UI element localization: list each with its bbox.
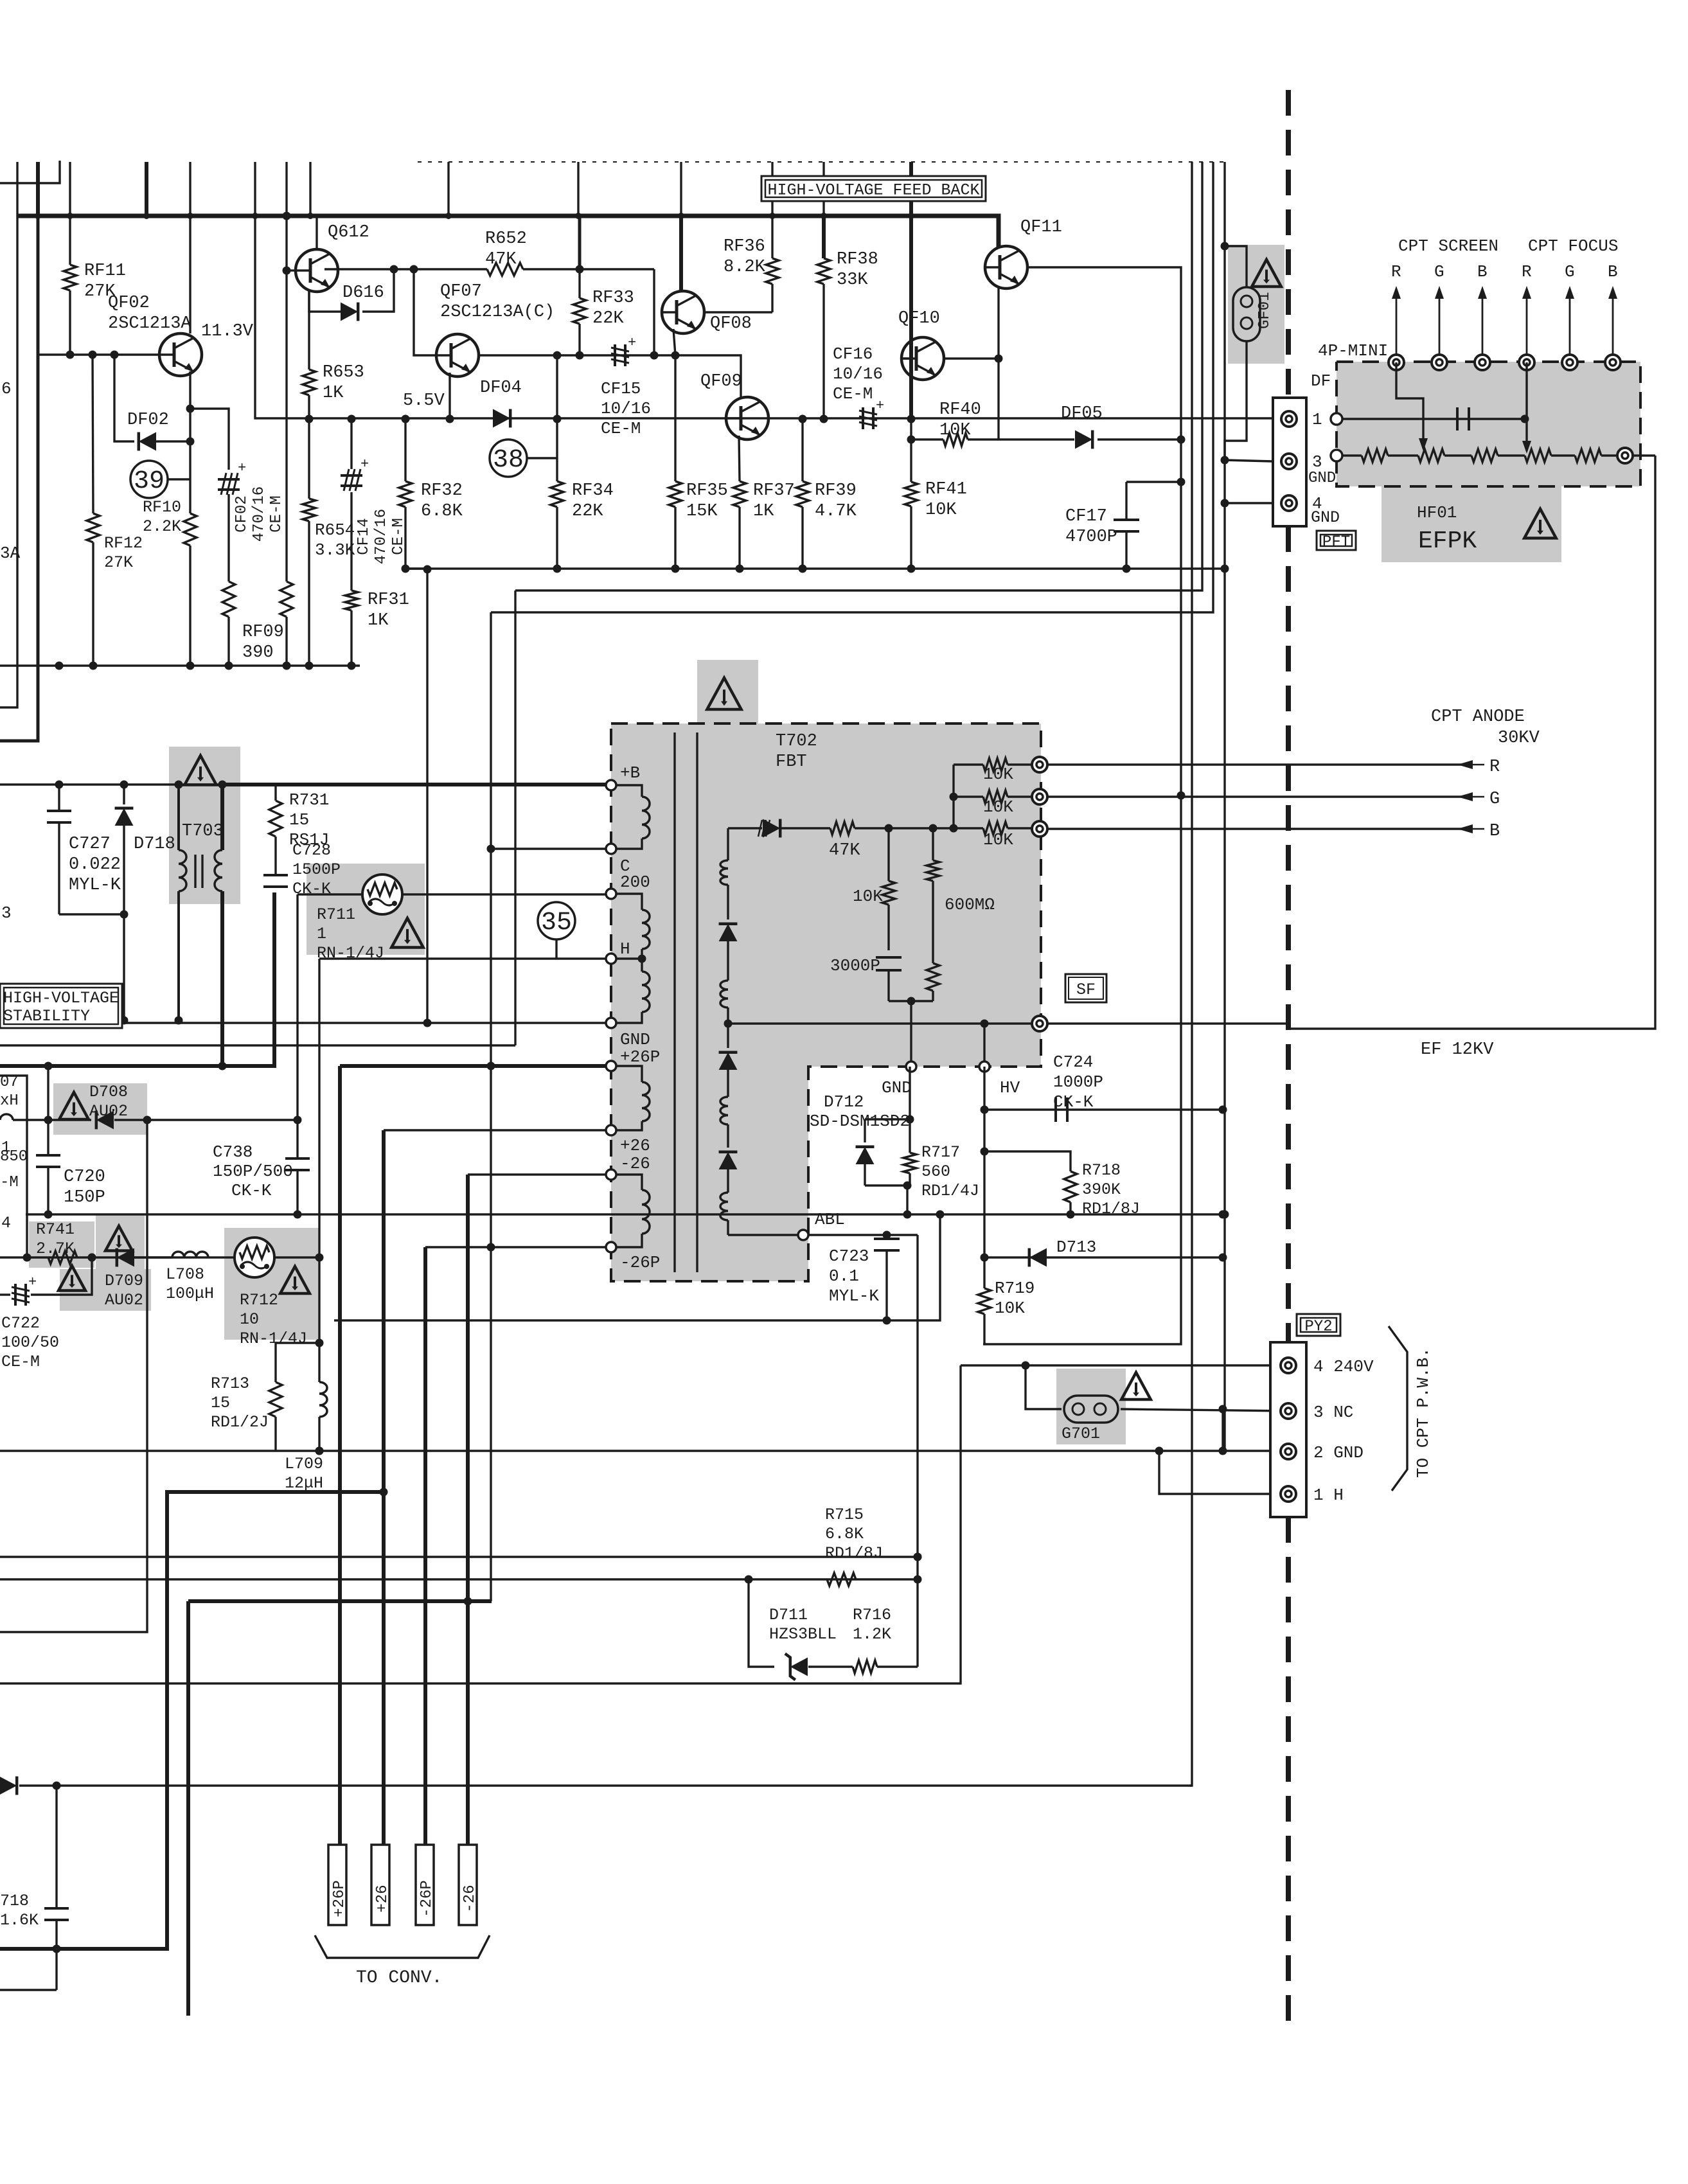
label DF02 [127, 411, 169, 430]
connector bar -26 [459, 1845, 479, 1925]
svg-text:CE-M: CE-M [601, 419, 641, 438]
warning triangle D708 [59, 1092, 89, 1119]
shaded region T702 flyback main block [611, 724, 1041, 1067]
wire R718 branch [984, 1151, 1071, 1171]
junction dots QF02 base line [66, 351, 119, 359]
pin +26 of T702 [606, 1125, 616, 1135]
junction dots y2258 [315, 1447, 1227, 1455]
svg-text:B: B [1489, 822, 1500, 841]
label pin 1 [1312, 410, 1322, 429]
label D713 [1056, 1238, 1096, 1257]
wire +26P line [340, 1064, 611, 1068]
wire GND line [124, 1022, 611, 1024]
wire left exit upper [0, 216, 17, 707]
label fragment 6 [1, 379, 12, 398]
label DF [1311, 371, 1331, 391]
wire 200 column [296, 894, 298, 1120]
capacitor C728 [263, 869, 288, 887]
label DF04 [480, 378, 522, 398]
wire R716 up [916, 1579, 918, 1667]
svg-text:C738: C738 [213, 1142, 253, 1162]
wire R line [1047, 763, 1466, 765]
label 30KV [1498, 729, 1540, 748]
wire B line [1047, 828, 1466, 830]
terminal PY2-1 [1281, 1486, 1296, 1502]
svg-text:ABL: ABL [815, 1210, 845, 1229]
warning triangle G701 [1121, 1372, 1151, 1399]
shaded region R711 [307, 864, 425, 955]
label PY2 pin3 [1313, 1403, 1353, 1422]
junction dot 1412 [903, 1182, 912, 1190]
wire H drive drop [318, 959, 320, 1257]
resistor R731 [269, 785, 282, 869]
wire top-left entry [0, 161, 60, 183]
wire QF08 collector [679, 216, 683, 291]
svg-text:718: 718 [0, 1892, 29, 1910]
svg-text:4P-MINI: 4P-MINI [1318, 341, 1388, 360]
svg-text:470/16: 470/16 [373, 509, 390, 564]
svg-text:G701: G701 [1062, 1425, 1100, 1443]
warning triangle R711 [391, 918, 423, 948]
junction dot G701 branch [1022, 1362, 1030, 1370]
warning triangle R741a [105, 1226, 132, 1251]
shaded region R741 [29, 1221, 94, 1268]
focus pack border [1337, 362, 1640, 486]
junction dots D708 line [44, 1116, 302, 1124]
wire HV-C724 line [983, 1067, 985, 1110]
wire QF02 emitter [189, 371, 191, 441]
wire R652 corner down [653, 269, 655, 355]
label C728 [292, 841, 341, 898]
label 11.3V [201, 322, 254, 341]
label R715 [825, 1505, 883, 1563]
svg-text:R719: R719 [995, 1279, 1035, 1298]
capacitor C718 fragment [44, 1786, 69, 1990]
wire 5.5V line [255, 216, 1289, 418]
terminal CPT 4 [1519, 355, 1534, 370]
svg-text:CE-M: CE-M [268, 495, 285, 533]
fusible resistor R711 [362, 874, 402, 914]
resistor 47K [781, 822, 954, 835]
svg-text:560: 560 [921, 1162, 950, 1181]
svg-text:2SC1213A(C): 2SC1213A(C) [440, 303, 555, 322]
wire pin +B to winding [616, 785, 642, 797]
transistor QF09 [726, 397, 768, 439]
resistor 10K y1240 [954, 790, 1032, 803]
label RF37 [753, 481, 795, 521]
svg-text:GND: GND [1311, 508, 1340, 527]
svg-text:+: + [360, 456, 369, 472]
svg-text:C723: C723 [829, 1247, 869, 1266]
wire winding to pin H [616, 949, 642, 959]
svg-text:4700P: 4700P [1065, 528, 1117, 547]
wire line y2458 [0, 1578, 918, 1580]
svg-text:RF11: RF11 [84, 262, 126, 281]
svg-text:1.6K: 1.6K [0, 1911, 39, 1930]
shaded region T702 top strip [697, 660, 758, 724]
svg-text:D718: D718 [134, 835, 175, 854]
svg-text:27K: 27K [104, 553, 133, 572]
label R652 [485, 229, 527, 269]
terminal CPT 6 [1605, 355, 1621, 370]
zener diode D711 [785, 1654, 808, 1680]
svg-text:MYL-K: MYL-K [69, 876, 121, 895]
pin GND of T702 [606, 1018, 616, 1028]
svg-text:4: 4 [1, 1214, 11, 1232]
label 5.5V [403, 391, 445, 411]
svg-text:3 NC: 3 NC [1313, 1403, 1353, 1422]
inductor L708 [134, 1252, 208, 1257]
svg-text:6.8K: 6.8K [421, 502, 463, 521]
junction dots GND line [120, 1017, 432, 1027]
wire feed stub x698 [447, 162, 449, 216]
svg-text:C720: C720 [64, 1167, 105, 1187]
wire feedback drop x764 [490, 612, 492, 1601]
wire feed stub x1282 [822, 162, 824, 216]
label C738 [213, 1142, 253, 1162]
wire -26 line [468, 1173, 611, 1175]
wire thick C728 return [0, 892, 274, 1066]
label CF17 [1065, 507, 1117, 547]
svg-text:R: R [1489, 758, 1500, 777]
wire focus R drop [1525, 362, 1527, 451]
warning triangle T703 [184, 756, 216, 785]
svg-text:CK-K: CK-K [1053, 1092, 1094, 1112]
wire left section bottom bus [0, 664, 360, 666]
resistor RF33 [573, 216, 586, 355]
arrow CPT B 2307 [1478, 286, 1487, 355]
wire to GND circle [910, 1001, 912, 1067]
junction dot C727/D718 [120, 910, 129, 919]
wire heavy dashed vertical lower [1286, 1517, 1291, 2024]
terminal CPT 5 [1562, 355, 1577, 370]
capacitor CF14 [341, 419, 369, 590]
svg-text:Q612: Q612 [328, 223, 369, 242]
pin HV of T702 [979, 1061, 990, 1072]
capacitor focus cap [1457, 407, 1469, 431]
label R anode [1489, 758, 1500, 777]
wire 10K bus [952, 765, 954, 828]
svg-text:11.3V: 11.3V [201, 322, 254, 341]
svg-text:+B: +B [620, 763, 640, 783]
label HIGH-VOLTAGE STABILITY box [0, 984, 122, 1028]
wire +B line [0, 783, 222, 785]
junction dots C724 line [981, 1106, 1227, 1114]
capacitor C720 [36, 1066, 60, 1214]
label fragment 4 [1, 1214, 11, 1232]
svg-text:R717: R717 [921, 1143, 960, 1162]
svg-text:RD1/8J: RD1/8J [1082, 1200, 1140, 1218]
diode D712 [856, 1119, 875, 1185]
label PFT box [1317, 531, 1356, 551]
svg-text:33K: 33K [837, 271, 868, 290]
label CF02 [233, 486, 285, 542]
resistor R741 [48, 1251, 77, 1264]
svg-text:CF17: CF17 [1065, 507, 1107, 526]
node 39 [130, 461, 190, 498]
label R653 [323, 363, 364, 403]
svg-text:47K: 47K [485, 250, 517, 269]
label pin 200 [620, 873, 650, 892]
svg-text:D709: D709 [105, 1272, 143, 1290]
label C722 [1, 1314, 59, 1371]
wire D713 line [983, 1110, 985, 1257]
wire feed stub x59 [36, 162, 40, 216]
junction dots R715 [745, 1553, 922, 1584]
shaded region D709 [60, 1269, 151, 1311]
label R654 [315, 520, 355, 560]
svg-text:PY2: PY2 [1304, 1318, 1332, 1336]
svg-text:200: 200 [620, 873, 650, 892]
junction dots column 446 [283, 212, 291, 275]
label 10K y1190 [983, 765, 1013, 784]
wire feedback drop x802 [514, 590, 516, 1045]
capacitor CF17 [1114, 482, 1139, 569]
diode D718 [115, 785, 134, 1020]
svg-text:CPT ANODE: CPT ANODE [1431, 707, 1525, 727]
label CPT B 2307 [1477, 262, 1488, 281]
wire line y2055 [334, 1214, 940, 1320]
resistor RF31 [345, 590, 358, 666]
transformer T702 winding -26--26P [642, 1190, 650, 1234]
wire Q612 base stub [287, 269, 296, 271]
wire Q612 base line [324, 268, 394, 270]
label RF10 [143, 498, 181, 536]
wire line y919 [515, 162, 1202, 590]
label ABL [815, 1210, 845, 1229]
resistor RF39 [796, 418, 809, 569]
junction dot QF10 coll [995, 355, 1003, 363]
svg-text:100/50: 100/50 [1, 1333, 59, 1352]
svg-text:2.2K: 2.2K [143, 517, 181, 536]
terminal CPT 2 [1432, 355, 1447, 370]
svg-text:3: 3 [1312, 452, 1322, 472]
label pin H [620, 939, 630, 959]
arrowhead focus R [1522, 441, 1531, 454]
svg-text:R652: R652 [485, 229, 527, 249]
label HV stability text [3, 989, 119, 1025]
svg-text:-M: -M [0, 1174, 19, 1191]
wire EF line [1047, 456, 1655, 1029]
svg-text:B: B [1608, 262, 1618, 281]
wire H line [319, 957, 611, 959]
svg-text:CK-K: CK-K [231, 1181, 272, 1200]
wire +B thick line [222, 783, 611, 786]
junction dot H winding [638, 955, 646, 963]
svg-text:1000P: 1000P [1053, 1072, 1103, 1092]
pin +B of T702 [606, 780, 616, 790]
terminal B [1032, 821, 1047, 837]
resistor RF11 [64, 216, 76, 355]
label T703 [182, 822, 224, 841]
wire top-section ground bus [405, 567, 1225, 569]
resistor R653 [303, 369, 315, 419]
wire pin H to winding2 [641, 959, 643, 972]
label CPT FOCUS [1528, 236, 1618, 256]
arrow CPT G 2240 [1435, 286, 1444, 355]
label pin C [620, 857, 630, 876]
transformer T702 border [611, 724, 1041, 1281]
capacitor C727 [47, 785, 71, 914]
svg-text:3.3K: 3.3K [315, 540, 355, 560]
svg-text:150P/500: 150P/500 [213, 1162, 293, 1181]
svg-text:EFPK: EFPK [1418, 528, 1477, 555]
svg-text:2SC1213A: 2SC1213A [108, 314, 191, 333]
diode D709 [117, 1248, 134, 1267]
label Q612 [328, 223, 369, 242]
label CPT SCREEN [1398, 236, 1498, 256]
arrow CPT R 2173 [1392, 286, 1401, 355]
junction dot 10K mid [950, 793, 958, 801]
label EF 12KV [1421, 1040, 1494, 1060]
wire winding to pin -26P [616, 1234, 642, 1247]
fusible resistor R712 [235, 1238, 274, 1277]
resistor RF32 [399, 418, 412, 569]
svg-text:D713: D713 [1056, 1238, 1096, 1257]
wire C727 bottom [59, 913, 124, 915]
wire chain to EF [1633, 454, 1655, 456]
transformer T702 secondary chain [719, 828, 738, 1235]
wire x227 drop [0, 1120, 147, 1632]
svg-text:850: 850 [0, 1148, 28, 1166]
inductor L707 [0, 1114, 13, 1120]
svg-text:T703: T703 [182, 822, 224, 841]
svg-text:RF32: RF32 [421, 481, 463, 501]
svg-text:CPT SCREEN: CPT SCREEN [1398, 236, 1498, 256]
label HV pin [1000, 1078, 1020, 1097]
svg-text:CF14: CF14 [355, 518, 373, 555]
label D711 [769, 1606, 837, 1644]
svg-text:T702: T702 [776, 732, 817, 751]
resistor R717 [903, 1153, 916, 1185]
wire CF17 top [1126, 481, 1181, 483]
resistor 10K inner [882, 828, 895, 950]
junction dots on 651 line [305, 415, 916, 423]
warning triangle R712 [280, 1266, 310, 1293]
diode D717 fragment [0, 1777, 17, 1795]
label 600M [945, 895, 995, 914]
label CPT B 2510 [1608, 262, 1618, 281]
svg-text:RF35: RF35 [686, 481, 728, 501]
wire -26P line [425, 1246, 611, 1248]
terminal chain right [1617, 448, 1633, 463]
label TO CPT PWB [1414, 1347, 1433, 1478]
svg-text:QF02: QF02 [108, 294, 150, 313]
resistor R713 [269, 1343, 282, 1451]
svg-text:+26: +26 [620, 1136, 650, 1155]
svg-text:AU02: AU02 [105, 1291, 143, 1310]
junction dots on 1838 column [1177, 436, 1186, 800]
capacitor CF02 [218, 460, 246, 582]
resistor RF38 [817, 216, 830, 418]
svg-text:HIGH-VOLTAGE: HIGH-VOLTAGE [3, 989, 119, 1008]
svg-text:4 240V: 4 240V [1313, 1357, 1374, 1376]
svg-text:-26: -26 [461, 1885, 479, 1912]
wire main top bus [17, 216, 999, 246]
label RF36 [724, 237, 766, 277]
label fragment -M [0, 1174, 19, 1191]
wire QF11 emitter [997, 286, 999, 439]
capacitor C723 [874, 1235, 900, 1320]
wire R717 top [909, 1067, 911, 1153]
wire Q612 emitter drop [308, 290, 310, 369]
label D712 [824, 1092, 864, 1112]
svg-text:C728: C728 [292, 841, 331, 860]
label fragment 1 [1, 1139, 10, 1157]
diode D708 [13, 1111, 298, 1130]
wire Q612 collector [315, 216, 317, 251]
svg-text:47K: 47K [829, 841, 860, 860]
junction dot base-R652 [390, 265, 398, 274]
wire 3000P/600M join [889, 1000, 933, 1002]
resistor R719 [978, 1257, 991, 1344]
svg-text:R713: R713 [211, 1374, 249, 1393]
label L708 [166, 1265, 214, 1303]
svg-text:390: 390 [242, 643, 274, 662]
wire +26P vertical [338, 1066, 342, 1845]
junction dots loop [315, 1339, 324, 1455]
wire pin1 branch [1159, 1451, 1270, 1494]
svg-text:+: + [238, 460, 246, 476]
label pin -26 [620, 1154, 650, 1173]
svg-text:G: G [1565, 262, 1575, 281]
svg-text:10K: 10K [983, 830, 1013, 849]
label fragment 850 [0, 1148, 28, 1166]
wire left entry 1674 [0, 1076, 27, 1257]
label QF11 [1020, 218, 1062, 237]
junction dots y1890 [44, 1211, 1229, 1219]
spark gap G701 [1064, 1396, 1118, 1423]
wire line y1627 [0, 1044, 515, 1046]
svg-text:12μH: 12μH [285, 1474, 323, 1493]
wire line y2258 [0, 1450, 1288, 1452]
warning triangle R741b [58, 1266, 85, 1291]
svg-text:R718: R718 [1082, 1161, 1121, 1180]
wire thick path B [188, 1599, 492, 1603]
wire GF01 top [1225, 246, 1247, 287]
label RF31 [368, 590, 409, 630]
svg-text:10K: 10K [983, 765, 1013, 784]
wire loop top [276, 1342, 319, 1344]
label QF10 [898, 309, 940, 328]
svg-text:R: R [1522, 262, 1532, 281]
wire QF11 collector line [983, 267, 1181, 1344]
svg-text:R716: R716 [853, 1606, 891, 1624]
transformer T702 winding +26P-+26 [642, 1082, 650, 1121]
svg-text:30KV: 30KV [1498, 729, 1540, 748]
junction dot focus cap [1521, 415, 1529, 423]
terminal DF-1 [1281, 411, 1297, 427]
transformer T702 core [675, 732, 697, 1272]
pin 200 of T702 [606, 889, 616, 899]
label SF box [1065, 974, 1106, 1002]
wire DF02 to emitter [156, 440, 190, 442]
svg-text:CE-M: CE-M [1, 1353, 40, 1371]
junction dots R652 line [410, 265, 584, 274]
label RF39 [815, 481, 857, 521]
svg-text:C727: C727 [69, 835, 111, 854]
junction dot 42-1957 [23, 1254, 96, 1262]
diode D713 [1029, 1248, 1047, 1267]
shaded region warning near R741 [96, 1214, 145, 1269]
svg-text:C722: C722 [1, 1314, 40, 1333]
terminal CPT 1 [1389, 355, 1404, 370]
wire winding to pin +26 [616, 1121, 642, 1130]
resistor 10K y1190 [954, 758, 1032, 771]
wire emitter jog [190, 409, 229, 470]
wire D712 bottom [865, 1184, 910, 1186]
svg-text:2 GND: 2 GND [1313, 1443, 1364, 1462]
